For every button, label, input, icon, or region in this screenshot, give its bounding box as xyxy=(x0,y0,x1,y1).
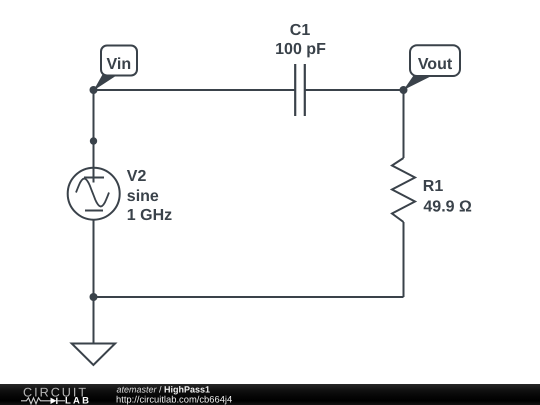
svg-text:1 GHz: 1 GHz xyxy=(127,207,172,224)
wire Vin to C1 left xyxy=(94,89,296,91)
logo wire xyxy=(57,400,65,402)
wire C1 right to Vout xyxy=(305,89,404,91)
node Vout junction dot xyxy=(400,86,408,94)
wire bottom rail xyxy=(94,296,404,298)
ground xyxy=(72,344,115,366)
wire R1 bottom to bottom rail xyxy=(403,222,405,297)
wire Vout down to R1 top xyxy=(403,90,405,158)
label V2 value xyxy=(127,168,172,224)
node Vin junction dot xyxy=(90,86,98,94)
resistor R1 xyxy=(392,158,415,222)
node Vout flag xyxy=(404,45,461,90)
logo diode bar xyxy=(56,398,58,404)
wire junction to ground xyxy=(93,297,95,344)
logo diode triangle xyxy=(51,398,57,404)
logo resistor zigzag xyxy=(21,398,51,404)
svg-text:sine: sine xyxy=(127,188,159,205)
svg-text:V2: V2 xyxy=(127,168,147,185)
wire Vin down to V2 top terminal xyxy=(93,90,95,168)
svg-text:49.9 Ω: 49.9 Ω xyxy=(423,199,472,216)
capacitor C1 xyxy=(295,64,305,116)
svg-text:http://circuitlab.com/cb664j4: http://circuitlab.com/cb664j4 xyxy=(116,393,232,404)
svg-text:LAB: LAB xyxy=(65,395,91,405)
voltage source V2 xyxy=(68,168,120,220)
label C1 value xyxy=(275,22,326,58)
svg-text:Vin: Vin xyxy=(106,56,131,73)
wire V2 bottom to bottom rail xyxy=(93,220,95,298)
footer bar xyxy=(0,384,540,405)
node Vin flag xyxy=(94,46,138,91)
V2 top terminal dot xyxy=(90,137,97,144)
svg-text:Vout: Vout xyxy=(418,56,453,73)
label R1 value xyxy=(423,178,472,215)
svg-text:R1: R1 xyxy=(423,178,444,195)
bottom junction dot xyxy=(90,293,98,301)
svg-text:C1: C1 xyxy=(290,22,311,39)
svg-text:100 pF: 100 pF xyxy=(275,41,326,58)
